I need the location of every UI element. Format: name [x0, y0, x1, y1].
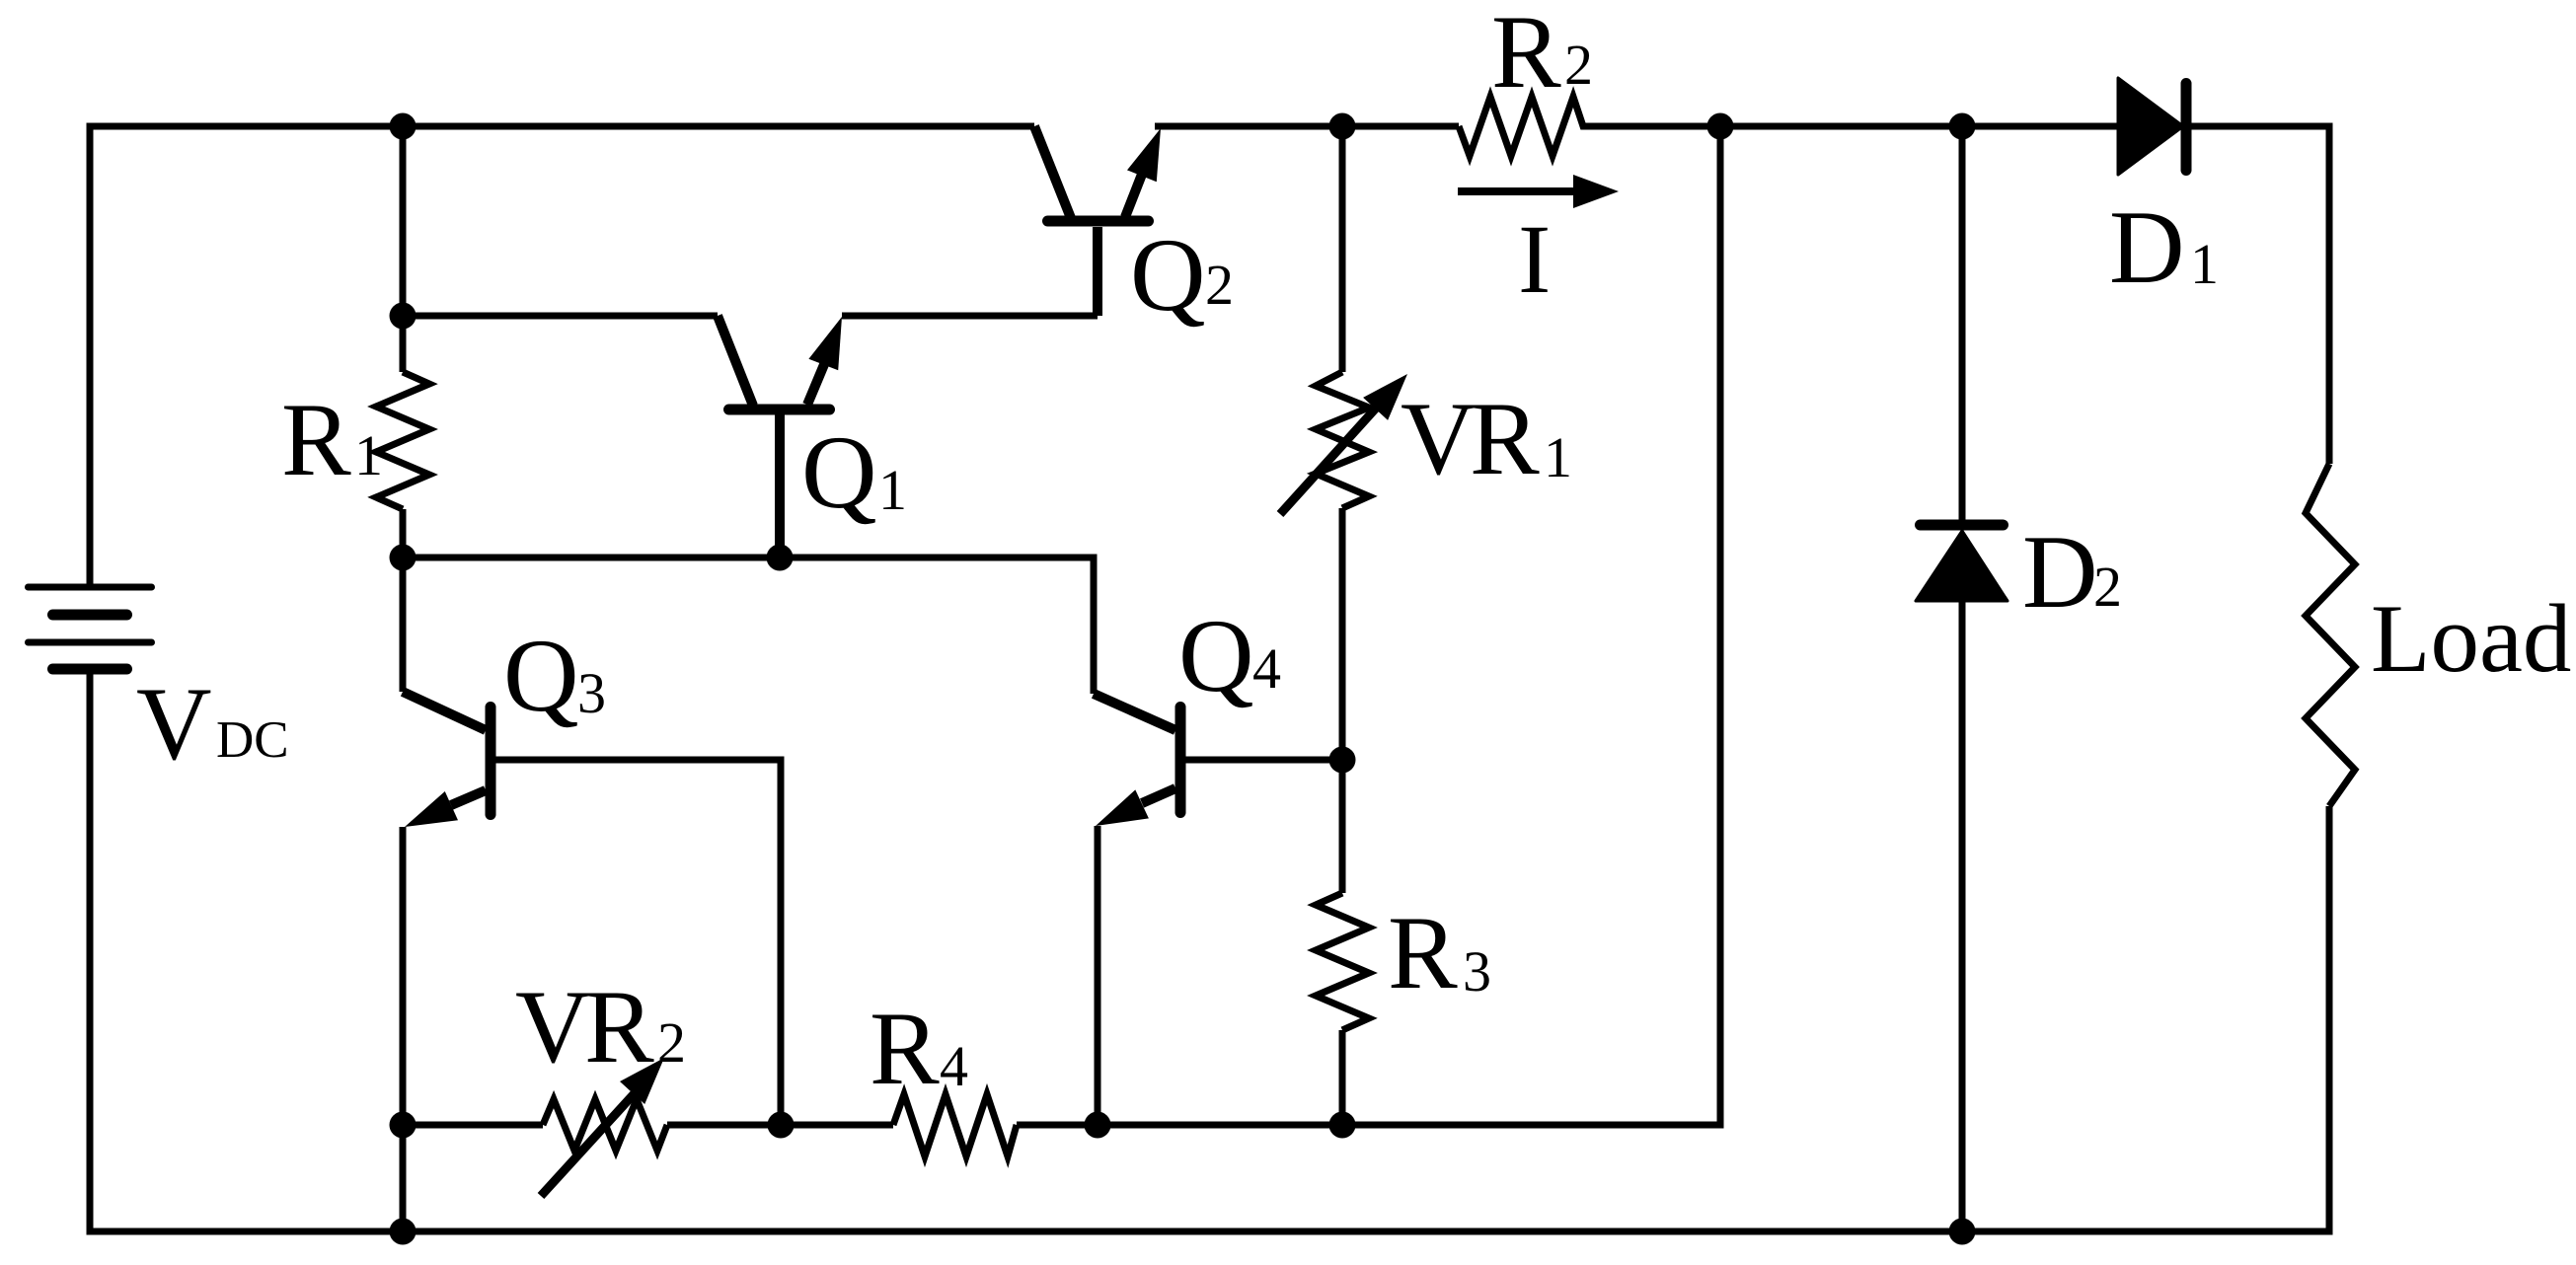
svg-text:Load: Load [2371, 585, 2571, 693]
svg-text:Q: Q [801, 414, 877, 530]
svg-text:I: I [1518, 204, 1551, 314]
svg-text:DC: DC [216, 711, 289, 769]
svg-text:R: R [1491, 0, 1561, 110]
svg-text:2: 2 [657, 1010, 686, 1075]
svg-text:Q: Q [1178, 598, 1254, 713]
svg-text:V: V [515, 969, 591, 1084]
svg-text:V: V [1401, 381, 1477, 496]
svg-text:3: 3 [1463, 939, 1491, 1004]
svg-text:Q: Q [1130, 217, 1206, 333]
svg-text:1: 1 [878, 458, 907, 522]
svg-text:R: R [281, 382, 351, 497]
svg-text:R: R [1388, 895, 1458, 1010]
svg-text:1: 1 [1544, 425, 1572, 489]
svg-text:3: 3 [577, 661, 606, 725]
svg-text:4: 4 [1252, 636, 1281, 701]
svg-text:V: V [136, 666, 212, 781]
svg-text:R: R [584, 969, 654, 1084]
svg-text:R: R [1470, 381, 1540, 496]
svg-text:2: 2 [2093, 555, 2122, 619]
svg-text:2: 2 [1205, 253, 1234, 317]
svg-text:1: 1 [2190, 232, 2219, 296]
svg-text:R: R [870, 991, 940, 1106]
svg-text:D: D [2109, 189, 2185, 305]
svg-text:4: 4 [940, 1034, 968, 1098]
svg-text:Q: Q [503, 618, 579, 733]
svg-text:1: 1 [354, 423, 383, 487]
svg-text:2: 2 [1564, 33, 1593, 97]
svg-text:D: D [2022, 514, 2098, 630]
